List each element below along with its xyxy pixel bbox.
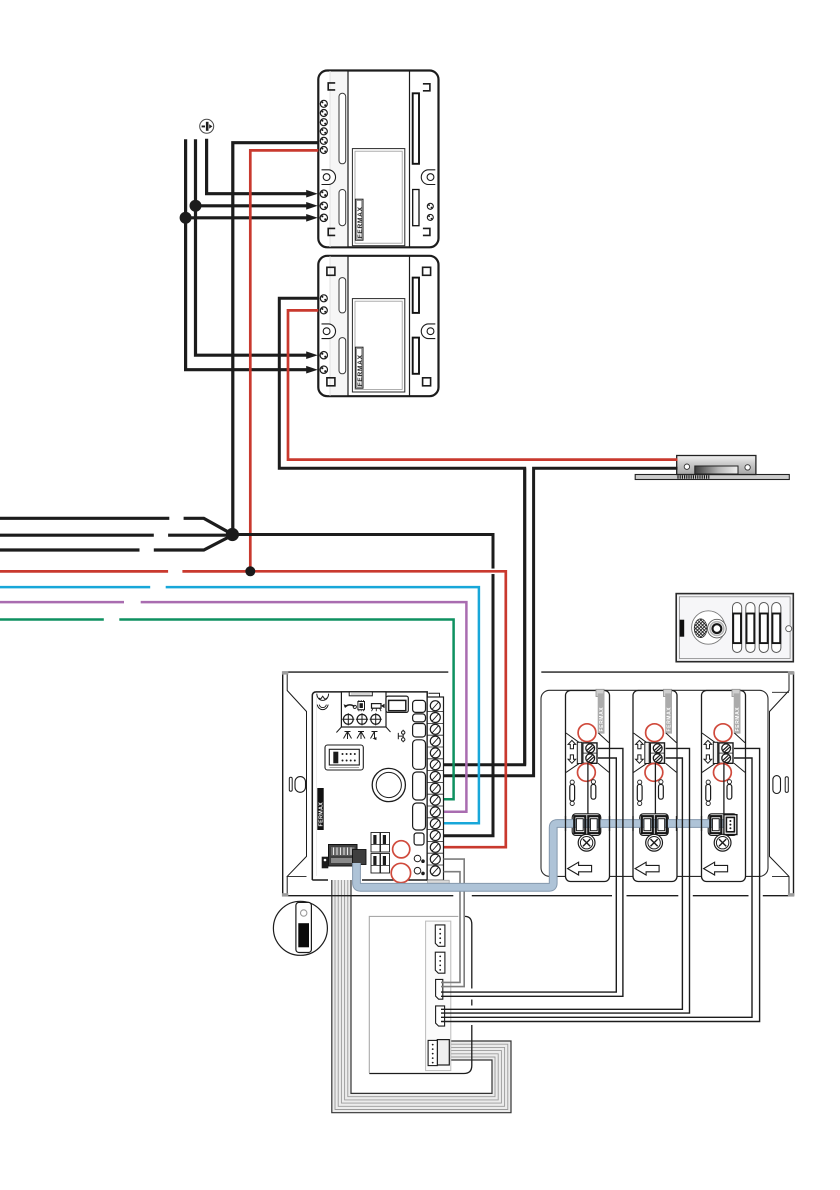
gray wire amp terminal 14 to board J3 [441, 872, 460, 983]
bus wire black 3 [0, 535, 232, 550]
amp icon: chip [358, 702, 365, 710]
buzzer symbol [200, 119, 214, 133]
telephone T2 (lower) [318, 256, 438, 396]
T1 terminal screws upper block [320, 100, 327, 153]
strike screw holes [684, 464, 689, 469]
module 3 cable connectors [710, 815, 737, 835]
T2 terminal screws top [320, 295, 327, 314]
T1 screw-hole tabs [322, 170, 336, 185]
wire: riser C from buzzer to T1 terminal 1 [207, 139, 307, 194]
board connector J2 [435, 952, 445, 973]
amp FERMAX logo [317, 788, 323, 830]
wire: red from T2 terminal to door strike [288, 310, 678, 459]
amp top-left bracket [317, 694, 329, 701]
amp potentiometers [343, 714, 380, 724]
sound module mounting plate behind button modules [541, 690, 768, 876]
blue interconnect cable [357, 824, 732, 888]
T1 FERMAX logo [355, 199, 363, 240]
board connector J1 [435, 925, 445, 946]
white gaps where module wires cross board edge [467, 989, 477, 1000]
panel button slot 4 [772, 603, 781, 653]
amp small screws near strip [414, 855, 421, 862]
wire: black from door strike to amp terminal 2 [444, 468, 678, 776]
amp config box (top right) [386, 696, 408, 712]
amp bell icons [344, 732, 378, 740]
button module 2 [633, 689, 677, 881]
svg-text:FERMAX: FERMAX [599, 707, 605, 732]
T1 inner front plate [352, 149, 404, 246]
T2 slots [339, 278, 346, 313]
electric door strike [635, 456, 789, 480]
frame slot left oval [295, 777, 306, 793]
wire module1 button terminals to board J3 [441, 748, 623, 996]
button module 1 [566, 689, 610, 881]
frame corner caps [282, 671, 794, 896]
T2 mounting notches [327, 267, 431, 386]
amplifier module [312, 692, 449, 883]
red junction dot [245, 566, 255, 576]
T1 right screws [427, 203, 433, 220]
T2 FERMAX logo [355, 347, 363, 388]
svg-text:FERMAX: FERMAX [357, 354, 364, 386]
button module 3 [702, 689, 746, 881]
amp body [312, 692, 427, 880]
amp icon panel [341, 692, 386, 727]
amp DIP switch [325, 745, 363, 770]
wire: riser A to T1 terminal 3 and T2 terminal 2 [186, 139, 307, 369]
amp ribbon connector [329, 845, 358, 867]
mounting frame of street panel (outer box) [283, 672, 794, 896]
panel button slot 1 [733, 603, 742, 653]
wire: black from T2 terminal to amp terminal 1 [279, 298, 524, 764]
bus wire red [0, 570, 250, 573]
frame slot left small [289, 777, 292, 791]
board connector J3 [436, 979, 443, 999]
module 1 cable connectors [574, 816, 599, 833]
arrow into T1 terminal 1 [306, 190, 318, 198]
amp relay grid [371, 833, 390, 874]
svg-text:FERMAX: FERMAX [357, 206, 364, 238]
module 2 cable connectors [642, 816, 667, 833]
bus wire green to amp terminal 4 [0, 620, 454, 800]
wire: red bus to amp terminal 7 (crosses black riser) [489, 569, 497, 575]
junction dot on riser A [180, 212, 192, 224]
strike latch [695, 466, 738, 474]
frame slot right oval [773, 776, 781, 794]
panel speaker grille hatch [694, 619, 707, 638]
bus wire cyan to amp terminal 3 [0, 587, 479, 823]
amp jumper icon [398, 730, 405, 743]
panel small hole [786, 626, 792, 632]
board connector J4 [436, 1006, 445, 1026]
svg-text:FERMAX: FERMAX [319, 802, 325, 827]
wire: black bus to amp terminal 6 [232, 535, 493, 836]
panel mic rings [708, 619, 727, 638]
amp terminal strip [427, 697, 443, 880]
arrow into T1 terminal 3 [306, 214, 318, 222]
board connector J5 (ribbon) [437, 1040, 449, 1065]
bus wire black 2 [0, 534, 232, 537]
bus wire black 1 (from left edge) [0, 518, 232, 534]
arrow into T2 terminal 1 [306, 351, 318, 359]
main junction dot [226, 528, 239, 541]
gray wire amp terminal 13 to board J3 [441, 859, 464, 987]
module edges redrawn over cable [566, 816, 702, 831]
amp aux connector [322, 857, 329, 869]
amp icon: camera [372, 704, 382, 709]
amp blue-cable connector [353, 850, 367, 865]
strike body [677, 456, 756, 475]
T1 mounting notches [328, 83, 430, 236]
strike base plate [635, 475, 789, 480]
panel speaker circle [692, 611, 725, 644]
panel name label [680, 620, 685, 637]
panel button slot 3 [759, 603, 768, 653]
panel button slot 2 [746, 603, 755, 653]
wire module3 button terminals to board J4 [441, 748, 760, 1021]
amp icon: handset [345, 705, 355, 707]
amp slot column [413, 700, 426, 845]
bus wire violet to amp terminal 5 [0, 602, 466, 812]
arrow into T1 terminal 2 [306, 202, 318, 210]
T2 terminal screws bottom [320, 352, 327, 374]
white crossing gap between T2 wire and strike wire [527, 466, 532, 472]
frame inner profile right [770, 672, 790, 896]
frame inner profile left [287, 672, 306, 896]
arrow into T2 terminal 2 [306, 366, 318, 374]
amp speaker circle [372, 768, 405, 801]
T2 inner front plate [352, 299, 404, 392]
amp red callout circles [393, 841, 410, 858]
frame slot right small [785, 777, 788, 793]
magnifier callout [273, 901, 327, 955]
wire: red from T1 upper terminal down to red junction [250, 150, 318, 571]
street keypad panel (top right) [676, 594, 793, 662]
strike teeth [678, 475, 709, 478]
telephone T1 (top) [318, 71, 438, 248]
T2 screw-hole tabs [322, 324, 336, 339]
ribbon cable from amplifier to distributor board [332, 866, 511, 1113]
distributor board [369, 916, 472, 1073]
wire module2 button terminals to board J4 [441, 748, 690, 1013]
junction dot on riser B [190, 200, 202, 212]
T1 slots [339, 93, 346, 164]
wire: black from T1 upper terminal to main junction [233, 143, 318, 535]
wire: riser B to T1 terminal 2 and T2 terminal [196, 139, 308, 355]
T1 terminal screws lower block [320, 190, 327, 222]
